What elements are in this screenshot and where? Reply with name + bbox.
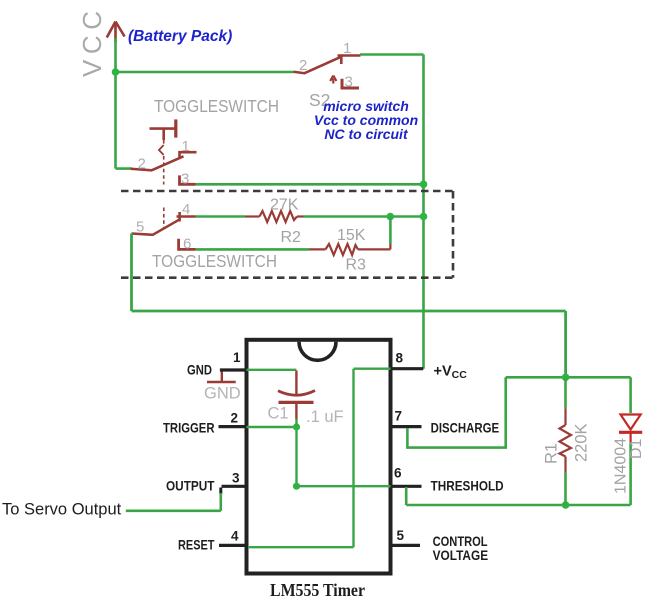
label pin numbers: [231, 350, 405, 544]
wire S2 pin1 to vcc vertical: [360, 53, 424, 56]
wire internal vertical pin8 to reset row: [352, 369, 354, 548]
svg-text:OUTPUT: OUTPUT: [166, 478, 215, 494]
wire bottom rail: [406, 504, 630, 507]
svg-text:THRESHOLD: THRESHOLD: [431, 478, 504, 494]
pin 2 stub: [219, 425, 247, 428]
resistor R3: [309, 243, 390, 255]
svg-text:15K: 15K: [337, 227, 366, 244]
wire output to servo: [126, 509, 221, 512]
pin 7 stub: [391, 425, 422, 428]
svg-text:3: 3: [345, 74, 353, 91]
node junction R2/R3: [387, 213, 395, 221]
svg-text:8: 8: [396, 351, 404, 366]
svg-text:DISCHARGE: DISCHARGE: [431, 420, 500, 436]
switch toggle 2: [132, 208, 196, 250]
wire vcc vertical to pin 8: [422, 55, 425, 369]
svg-text:2: 2: [231, 411, 239, 426]
wire pin2 internal: [247, 426, 297, 428]
svg-text:(Battery Pack): (Battery Pack): [128, 28, 232, 45]
svg-text:2: 2: [299, 57, 307, 74]
svg-text:To Servo Output: To Servo Output: [2, 501, 122, 519]
wire internal cap vertical: [295, 427, 297, 486]
ground symbol at pin 1: [207, 371, 236, 383]
svg-text:27K: 27K: [270, 197, 299, 214]
dashed enclosure box: [121, 191, 453, 278]
node junction R2 line / vcc vertical: [420, 213, 428, 221]
svg-text:2: 2: [138, 156, 146, 173]
svg-text:LM555 Timer: LM555 Timer: [270, 580, 365, 600]
wire R3 up to R2 line: [389, 217, 392, 245]
wire internal reset row: [248, 546, 354, 548]
svg-text:NC to circuit: NC to circuit: [324, 126, 409, 142]
wire pin1 internal: [247, 369, 297, 371]
wire R2 to vertical: [304, 215, 424, 218]
svg-text:5: 5: [397, 528, 405, 543]
wire VCC vertical: [114, 38, 117, 169]
node junction R1 top: [562, 374, 570, 382]
wire toggle1 pin3 to vertical: [196, 183, 424, 186]
wire toggle1 pin2 stub: [116, 167, 133, 170]
svg-text:GND: GND: [204, 385, 241, 403]
svg-text:VCC: VCC: [77, 11, 107, 77]
svg-text:GND: GND: [187, 362, 212, 378]
svg-text:3: 3: [232, 471, 240, 486]
svg-text:1: 1: [182, 138, 190, 155]
wire threshold row internal: [297, 485, 407, 487]
wire R1 bottom green: [564, 473, 567, 506]
wire toggle2 pin4 to R2: [196, 215, 246, 218]
node junction VCC: [112, 68, 120, 76]
svg-text:5: 5: [136, 219, 144, 236]
svg-text:.1 uF: .1 uF: [306, 408, 344, 426]
svg-text:VOLTAGE: VOLTAGE: [433, 547, 489, 563]
wire top right rail: [506, 376, 631, 379]
pin 5 stub: [391, 544, 421, 547]
svg-text:6: 6: [183, 236, 191, 253]
IC pin stubs: [219, 369, 424, 546]
power VCC arrow: [107, 22, 125, 43]
diode D1: [619, 415, 642, 443]
wire toggle2 pin5 down: [130, 234, 133, 312]
wire discharge route: [407, 377, 505, 447]
pin 4 stub: [219, 544, 247, 547]
svg-text:TRIGGER: TRIGGER: [163, 419, 215, 435]
wire cap lead lower green: [295, 419, 297, 427]
node junction R1 bottom: [562, 501, 570, 509]
svg-text:TOGGLESWITCH: TOGGLESWITCH: [152, 251, 277, 271]
svg-text:R3: R3: [346, 257, 367, 274]
pin 3 stub: [222, 485, 247, 488]
svg-text:220K: 220K: [573, 423, 591, 462]
node junction pin3 line: [420, 181, 428, 189]
svg-text:3: 3: [181, 171, 189, 188]
node junction output row: [293, 483, 300, 490]
svg-text:C1: C1: [268, 404, 289, 422]
svg-text:1: 1: [343, 40, 351, 57]
svg-text:4: 4: [231, 529, 239, 544]
svg-text:R2: R2: [281, 229, 302, 246]
svg-text:4: 4: [182, 201, 190, 218]
wire pin8 internal: [354, 368, 391, 370]
IC U1 LM555 body: [247, 340, 391, 574]
svg-text:D1: D1: [628, 438, 645, 459]
wire VCC top rail to S2 pin2: [116, 71, 294, 74]
IC notch: [299, 342, 336, 361]
svg-text:1: 1: [233, 350, 241, 365]
wire threshold down: [405, 487, 408, 505]
svg-text:1N4004: 1N4004: [613, 438, 630, 494]
wire D1 bottom green: [629, 443, 632, 506]
switch toggle 1: [131, 119, 197, 184]
resistor R2: [245, 211, 304, 222]
svg-text:RESET: RESET: [178, 537, 215, 553]
pin 6 stub: [391, 485, 422, 488]
label micro switch note: [314, 98, 418, 142]
pin 1 stub: [220, 368, 247, 371]
switch S2 micro switch: [294, 56, 361, 89]
wire right rail down: [564, 311, 567, 377]
wire output down: [219, 488, 222, 495]
pin 8 stub: [391, 367, 424, 370]
svg-text:6: 6: [394, 466, 402, 481]
svg-text:TOGGLESWITCH: TOGGLESWITCH: [154, 96, 279, 116]
svg-text:R1: R1: [543, 443, 561, 464]
wire mid rail: [132, 310, 566, 313]
capacitor C1: [278, 371, 315, 420]
node junction C1 lead: [293, 423, 300, 430]
wire D1 top green: [629, 377, 632, 413]
wire toggle2 pin6 to R3: [196, 248, 310, 251]
resistor R1: [560, 377, 572, 472]
svg-text:7: 7: [395, 409, 403, 424]
